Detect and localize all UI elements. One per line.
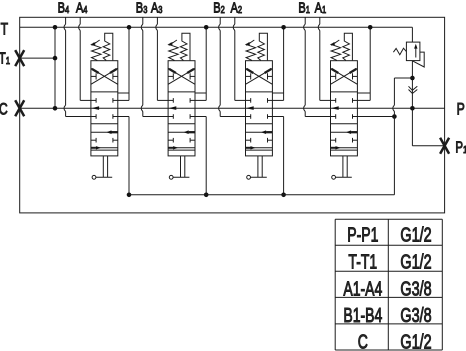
V2 check spring with arrow	[246, 42, 256, 60]
wire T rail	[20, 26, 413, 28]
junction P line / relief	[410, 106, 415, 111]
V1 box2 ports	[335, 138, 337, 143]
junction T line / V1 return	[368, 25, 373, 30]
svg-text:A4: A4	[76, 0, 88, 16]
V1 divider box1/box2	[331, 123, 358, 125]
V1 divider box2/foot	[331, 149, 358, 151]
V2 B work-port rail	[219, 17, 221, 24]
svg-text:G1/2: G1/2	[400, 330, 431, 351]
V1 box1 port symbols	[331, 99, 336, 101]
V2 check element crossed arrows	[246, 68, 273, 84]
V3 B rail hop over C	[141, 105, 143, 111]
svg-text:A2: A2	[231, 0, 243, 16]
V2 T-return rail	[283, 27, 285, 100]
V4 lever pivot circle	[92, 175, 96, 179]
junction T1/rail1	[53, 56, 58, 61]
junction bus / V2 drain	[281, 193, 286, 198]
V4 flow arrow on C line	[91, 106, 99, 110]
V4 box2 ports	[95, 138, 97, 143]
junction T/rail1	[53, 25, 58, 30]
V4 check element crossed arrows	[91, 68, 118, 84]
V2 box1 port symbols	[246, 99, 251, 101]
V1 box2 flow lines	[331, 131, 358, 133]
V3 box2 ports	[172, 138, 174, 143]
V1 actuator stem	[342, 156, 344, 177]
plug X at P1 port	[440, 138, 449, 154]
plug X at T1 port	[15, 50, 24, 66]
V1 A work-port rail	[319, 17, 321, 24]
V3 A work-port rail	[156, 17, 158, 24]
V1 B rail hop over T	[304, 24, 306, 30]
wire bottom drain bus	[129, 194, 394, 196]
svg-text:T1: T1	[0, 50, 10, 67]
svg-text:A1-A4: A1-A4	[343, 277, 382, 300]
svg-text:B3: B3	[136, 0, 148, 16]
V4 pilot spring and elbow	[103, 33, 113, 60]
V4 divider check/box1	[91, 91, 118, 93]
V4 check box side ports	[91, 75, 96, 77]
svg-text:B4: B4	[58, 0, 70, 16]
V3 check box side ports	[168, 75, 173, 77]
V1 B work-port rail	[304, 17, 306, 24]
valve section V1 body	[331, 61, 358, 156]
V2 A rail hop over T	[233, 24, 235, 30]
junction bus / V3 drain	[204, 193, 209, 198]
relief valve RV body	[406, 42, 420, 61]
svg-text:G1/2: G1/2	[400, 250, 431, 273]
svg-text:T: T	[1, 21, 9, 39]
V1 T-return rail	[369, 27, 371, 100]
V1 lever pivot circle	[332, 175, 336, 179]
V4 A work-port rail	[79, 17, 81, 24]
V2 actuator stem	[257, 156, 259, 177]
V3 drain drop to bus	[195, 116, 206, 118]
svg-text:T-T1: T-T1	[348, 250, 377, 273]
V3 check spring with arrow	[169, 42, 179, 60]
junction V1 drain / relief drain rail	[392, 114, 397, 119]
V1 check box side ports	[331, 75, 336, 77]
svg-text:B1: B1	[298, 0, 310, 16]
junction relief drain branch	[410, 76, 415, 81]
wire relief outlet	[411, 61, 413, 109]
V4 T-return rail	[128, 27, 130, 100]
V3 T-return rail	[205, 27, 207, 100]
V1 A rail hop over T	[318, 24, 320, 30]
valve section V4 body	[91, 61, 118, 156]
valve section V2 body	[246, 61, 273, 156]
V2 lever pivot circle	[247, 175, 251, 179]
wire T1 stub	[20, 57, 55, 59]
V1 check element crossed arrows	[331, 68, 358, 84]
junction bus / V4 drain	[127, 193, 132, 198]
V4 B rail hop over C	[64, 105, 66, 111]
V1 drain line to relief drain	[357, 116, 394, 118]
svg-text:G3/8: G3/8	[400, 277, 431, 300]
V3 A rail hop over T	[156, 24, 158, 30]
V3 pilot spring and elbow	[180, 33, 190, 60]
svg-text:P1: P1	[455, 139, 466, 156]
V4 box1 port symbols	[91, 99, 96, 101]
V3 lever pivot circle	[169, 175, 173, 179]
relief valve internal arrow	[415, 47, 417, 58]
svg-text:P-P1: P-P1	[347, 223, 378, 246]
wire T to relief inlet	[411, 27, 413, 42]
V1 B rail hop over C	[304, 105, 306, 111]
V4 actuator stem	[102, 156, 104, 177]
V1 check spring with arrow	[331, 42, 341, 60]
plug X at C port	[15, 100, 24, 116]
valve section V3 body	[168, 61, 195, 156]
wire left rail T-T1-C	[54, 27, 56, 108]
V3 B work-port rail	[142, 17, 144, 24]
V2 B rail hop over T	[219, 24, 221, 30]
svg-text:B2: B2	[213, 0, 225, 16]
wire relief drain branch to bus	[394, 77, 412, 79]
junction T line / V3 return	[204, 25, 209, 30]
relief valve pilot drain triangle	[413, 52, 425, 67]
svg-text:G3/8: G3/8	[400, 304, 431, 327]
wire P1 branch	[411, 108, 413, 146]
V2 divider check/box1	[246, 91, 273, 93]
svg-text:A1: A1	[315, 0, 327, 16]
V4 B work-port rail	[65, 17, 67, 24]
drain rail hop over P line	[393, 105, 395, 111]
svg-text:B1-B4: B1-B4	[343, 304, 382, 327]
V3 actuator stem	[180, 156, 182, 177]
V2 pilot spring and elbow	[258, 33, 268, 60]
wire C-P rail	[20, 107, 445, 109]
svg-text:C: C	[0, 101, 8, 119]
V2 check box side ports	[246, 75, 251, 77]
junction T line / V2 return	[281, 25, 286, 30]
V2 flow arrow on C line	[246, 106, 254, 110]
junction C/rail1	[53, 106, 58, 111]
relief valve spring	[393, 48, 406, 55]
V1 divider check/box1	[331, 91, 358, 93]
V4 divider box1/box2	[91, 123, 118, 125]
V2 divider box1/box2	[246, 123, 273, 125]
port size table	[335, 218, 442, 220]
check chevrons on relief outlet	[409, 86, 418, 90]
V2 drain drop to bus	[272, 116, 283, 118]
V2 B rail hop over C	[219, 105, 221, 111]
V4 A rail hop over T	[79, 24, 81, 30]
V2 divider box2/foot	[246, 149, 273, 151]
V2 A work-port rail	[234, 17, 236, 24]
V4 drain drop to bus	[118, 116, 129, 118]
V2 box2 flow lines	[246, 131, 273, 133]
V3 B rail hop over T	[141, 24, 143, 30]
V3 box2 flow lines	[168, 131, 195, 133]
V1 flow arrow on C line	[331, 106, 339, 110]
V4 check spring with arrow	[92, 42, 102, 60]
svg-text:C: C	[358, 330, 368, 351]
V4 box2 flow lines	[91, 131, 118, 133]
V4 divider box2/foot	[91, 149, 118, 151]
outer manifold boundary	[20, 17, 445, 213]
svg-text:A3: A3	[151, 0, 163, 16]
svg-text:P: P	[457, 101, 465, 119]
V3 divider check/box1	[168, 91, 195, 93]
V4 B rail hop over T	[64, 24, 66, 30]
svg-text:G1/2: G1/2	[400, 223, 431, 246]
V3 divider box1/box2	[168, 123, 195, 125]
junction T line / V4 return	[127, 25, 132, 30]
V3 check element crossed arrows	[168, 68, 195, 84]
V1 pilot spring and elbow	[343, 33, 353, 60]
V3 divider box2/foot	[168, 149, 195, 151]
V3 box1 port symbols	[168, 99, 173, 101]
V3 flow arrow on C line	[169, 106, 177, 110]
V2 box2 ports	[250, 138, 252, 143]
